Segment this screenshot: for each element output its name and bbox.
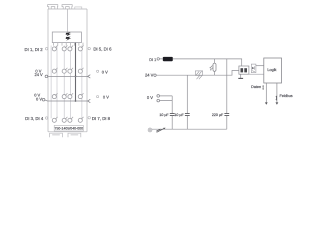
data line (265, 83, 267, 103)
ground stub of network (240, 74, 242, 78)
junction dot on 24V rail (75, 76, 77, 78)
24V rail entry clamp (45, 75, 48, 78)
junction dot on 0V rail (75, 100, 77, 102)
wire 24V rail (159, 59, 241, 66)
0V terminal circle upper (157, 95, 160, 98)
svg-text:0 V: 0 V (147, 95, 153, 100)
module housing outline (48, 9, 87, 132)
contact stubs under LED box (54, 43, 83, 46)
resistor R1 (hatched) (195, 71, 202, 79)
part number box (54, 125, 83, 131)
svg-text:24 V: 24 V (145, 72, 154, 77)
terminal row A (DI 1/2 + DI 5/6) (52, 47, 82, 51)
svg-text:0 V: 0 V (103, 95, 109, 100)
terminal row D (DI 3/4 + DI 7/8) (52, 118, 82, 122)
svg-text:DI 5, DI 6: DI 5, DI 6 (93, 47, 112, 52)
LED lightning symbol upper (66, 32, 72, 36)
svg-text:DI 1: DI 1 (149, 58, 156, 62)
svg-text:0 V: 0 V (36, 97, 42, 102)
optocoupler U1 (251, 64, 256, 73)
svg-text:750-1405/040-000: 750-1405/040-000 (55, 126, 84, 130)
internal power wire (thick) (75, 43, 77, 101)
svg-text:Feldbus: Feldbus (280, 94, 293, 98)
mounting tab 2 (top) (62, 5, 72, 9)
terminal row B (0V) (52, 69, 82, 73)
svg-text:0 V: 0 V (102, 70, 108, 75)
24V rail blade arrow (88, 75, 91, 78)
0V rail blade arrow (88, 99, 91, 102)
rail contact arrow (DIN rail) (156, 128, 164, 132)
input terminal circle (154, 74, 156, 76)
bottom mounting foot 2 (68, 133, 81, 137)
status LED D1 (214, 59, 216, 75)
earth terminal (148, 128, 152, 132)
top contact bump (75, 7, 82, 9)
svg-text:220 µF: 220 µF (212, 113, 224, 117)
terminal row C (0V) (52, 95, 82, 99)
svg-text:24 V: 24 V (34, 72, 43, 77)
supply terminal circle (157, 58, 159, 60)
LED lightning symbol lower (66, 37, 72, 41)
capacitor C2 10uF (186, 75, 188, 113)
fieldbus line (276, 83, 278, 103)
wire return to logic (249, 73, 264, 75)
clamp release ticks (55, 46, 83, 120)
svg-text:10 µF: 10 µF (159, 113, 169, 117)
0V power jumper rail (45, 100, 88, 101)
input resistor network (239, 66, 249, 74)
svg-text:DI 7, DI 8: DI 7, DI 8 (92, 116, 111, 121)
wire input rail (156, 71, 239, 76)
wire opto to logic (256, 65, 264, 67)
bottom mounting foot 1 (50, 133, 63, 137)
capacitor C3 220uF (226, 59, 228, 113)
svg-text:Logik: Logik (267, 68, 276, 72)
svg-text:10 µF: 10 µF (174, 113, 184, 117)
filter choke L1 (black) (163, 57, 173, 61)
svg-text:DI 3, DI 4: DI 3, DI 4 (25, 116, 44, 121)
fieldbus double arrow (275, 97, 277, 100)
data double arrow (262, 86, 264, 89)
0V bridge wires (160, 96, 173, 113)
0V rail entry clamp (42, 98, 45, 101)
label entry circles (45, 47, 98, 119)
capacitor C1 10uF (170, 114, 175, 116)
0V terminal circle lower (157, 99, 160, 102)
mounting tab 1 (top) (48, 5, 58, 9)
ground rail (152, 128, 227, 130)
24V power jumper rail (48, 75, 88, 77)
svg-text:Daten: Daten (251, 85, 261, 89)
internal wires (vertical) (51, 46, 82, 119)
logic block (264, 58, 282, 83)
svg-text:DI 1, DI 2: DI 1, DI 2 (25, 47, 44, 52)
LED arrows (210, 66, 213, 71)
LED indicator box (52, 32, 81, 43)
